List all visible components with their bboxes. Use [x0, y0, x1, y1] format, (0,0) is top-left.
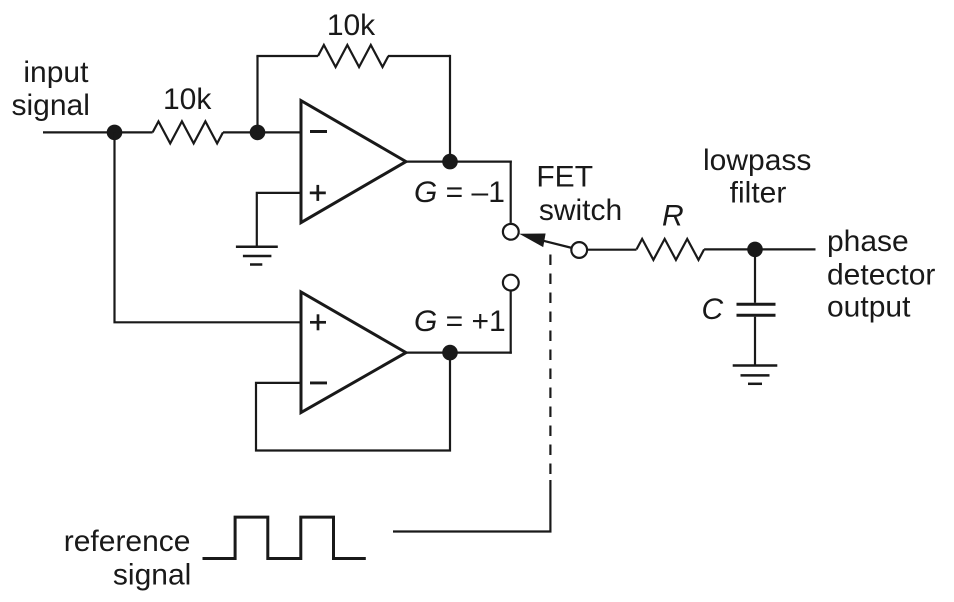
svg-text:R: R	[662, 200, 684, 233]
switch lever	[544, 241, 573, 248]
reference square wave	[203, 517, 366, 558]
svg-text:FET: FET	[536, 160, 593, 193]
U2 non-inverting pin plus	[310, 314, 326, 330]
U1 inverting pin minus	[310, 130, 327, 133]
capacitor C	[737, 304, 776, 315]
op-amp U1	[301, 101, 406, 223]
switch pole A terminal	[503, 224, 519, 240]
wire switch to resistor R	[587, 249, 637, 251]
resistor R2 10k feedback	[318, 45, 388, 67]
svg-text:signal: signal	[113, 559, 191, 592]
switch pole B terminal	[503, 275, 519, 291]
label input signal	[12, 56, 90, 122]
resistor R lowpass	[637, 239, 705, 260]
svg-text:G = –1: G = –1	[414, 176, 505, 209]
switch arrowhead	[519, 234, 545, 248]
resistor R1 10k input	[153, 121, 223, 143]
wire control corner to reference	[393, 480, 550, 532]
wire capacitor to ground	[754, 317, 756, 366]
label FET switch	[536, 160, 622, 226]
svg-text:10k: 10k	[327, 9, 376, 42]
wire input node down to U2 plus	[115, 132, 302, 322]
svg-text:output: output	[827, 291, 911, 324]
svg-text:lowpass: lowpass	[703, 144, 811, 177]
wire feedback top right segment	[388, 55, 450, 57]
label phase detector output	[827, 225, 935, 323]
svg-text:filter: filter	[730, 176, 787, 209]
svg-text:C: C	[702, 293, 724, 326]
node U2 output	[442, 345, 458, 361]
node input junction	[107, 125, 123, 141]
wire up to switch pole B	[510, 292, 512, 354]
ground GND2	[733, 366, 778, 384]
wire down to switch pole A	[510, 161, 512, 223]
wire feedback left vertical	[256, 56, 258, 132]
svg-text:phase: phase	[827, 225, 909, 258]
wire U2 output	[406, 352, 512, 354]
wire feedback top left segment	[256, 55, 318, 57]
wire U2 feedback loop	[256, 353, 450, 451]
node lowpass junction	[747, 242, 763, 258]
label reference signal	[64, 525, 192, 592]
label lowpass filter	[703, 144, 811, 210]
wire resistor to inverting input	[223, 131, 301, 133]
op-amp U2	[301, 292, 406, 413]
dashed control line	[549, 255, 551, 481]
wire U1 plus to ground	[257, 193, 301, 247]
svg-text:input: input	[23, 56, 89, 89]
ground GND1	[236, 247, 278, 265]
wire node to capacitor	[754, 249, 756, 302]
wire R to output node	[704, 248, 815, 250]
node U1 output	[442, 154, 458, 170]
node summing junction	[250, 125, 266, 141]
switch common terminal	[571, 242, 587, 258]
svg-text:10k: 10k	[163, 83, 212, 116]
svg-text:signal: signal	[12, 89, 90, 122]
svg-text:detector: detector	[827, 258, 935, 291]
svg-text:switch: switch	[539, 194, 622, 227]
svg-text:reference: reference	[64, 525, 191, 558]
wire feedback right vertical	[449, 55, 451, 162]
U1 non-inverting pin plus	[310, 185, 326, 201]
U2 inverting pin minus	[310, 381, 327, 384]
svg-text:G = +1: G = +1	[414, 305, 506, 338]
wire input horizontal	[43, 131, 153, 133]
wire U1 output	[406, 161, 512, 163]
